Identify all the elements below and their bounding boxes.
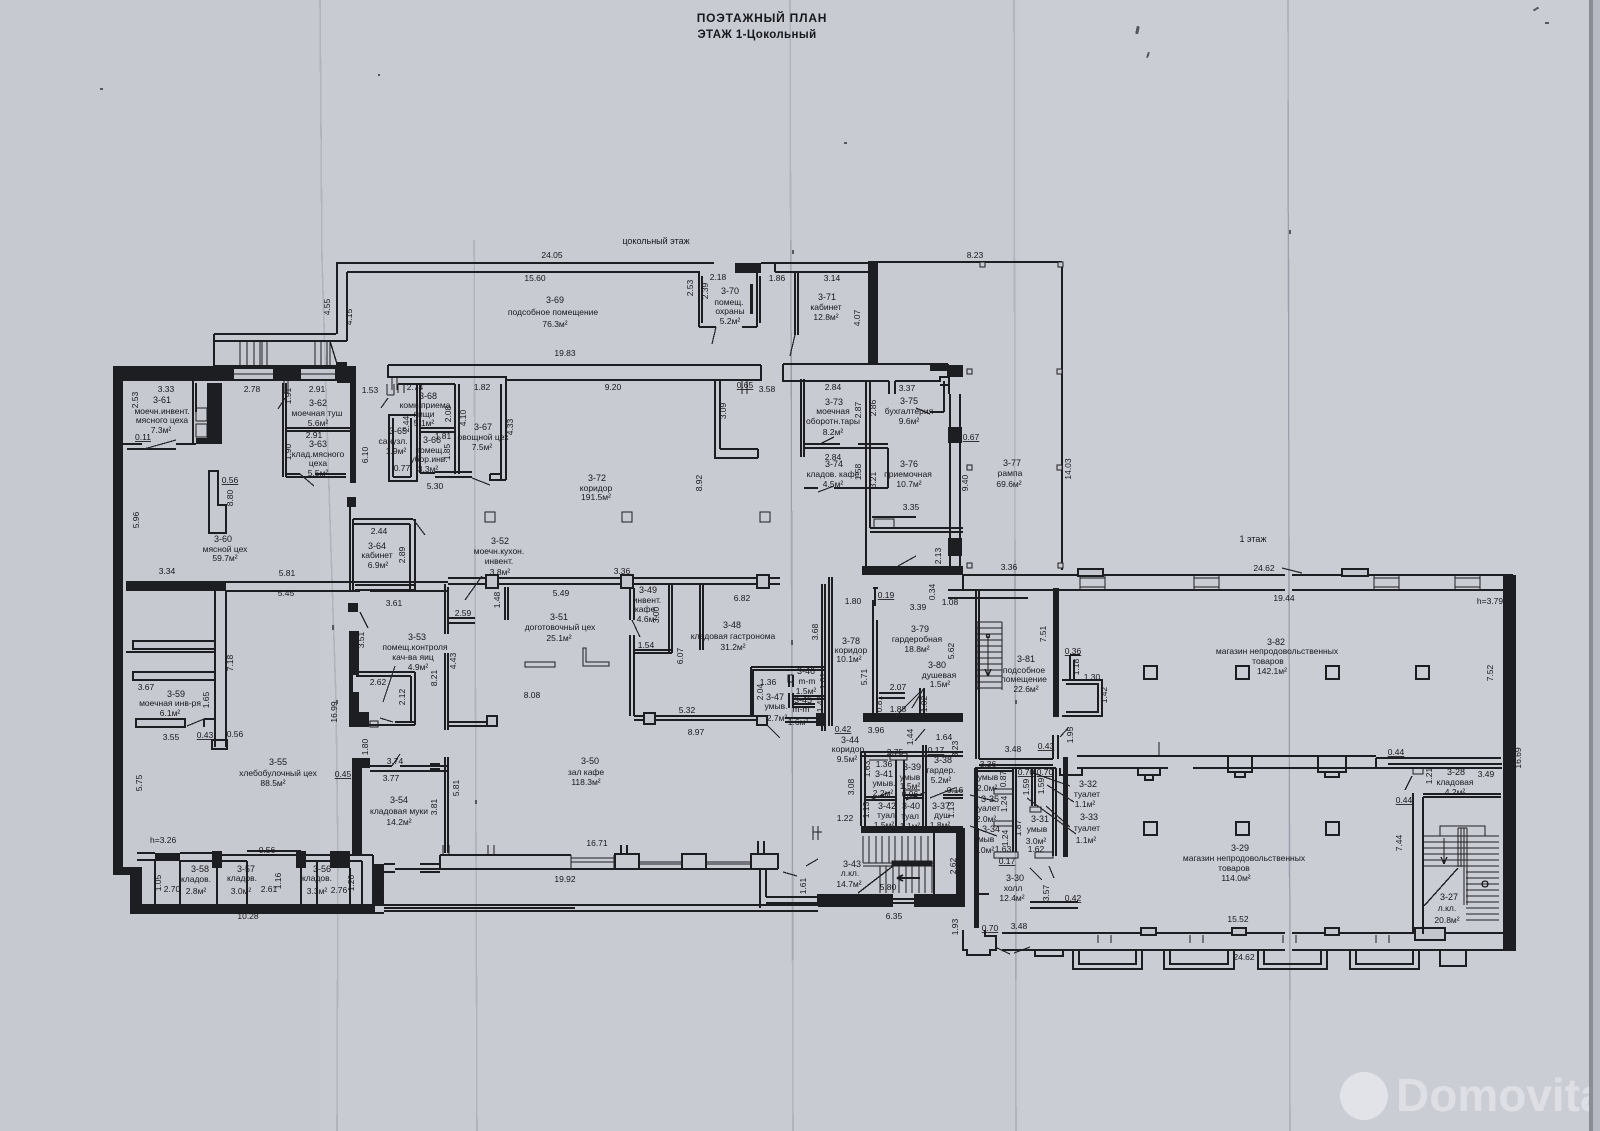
svg-text:1.53: 1.53 [362,385,379,395]
svg-text:л.кл.: л.кл. [841,868,859,878]
svg-text:6.9м²: 6.9м² [368,560,389,570]
svg-text:3.57: 3.57 [1041,884,1051,901]
svg-text:3.48: 3.48 [1011,921,1028,931]
east wall [1503,575,1516,950]
svg-text:118.3м²: 118.3м² [571,777,600,787]
svg-text:1.42: 1.42 [1099,686,1109,703]
svg-text:4.10: 4.10 [458,409,468,426]
svg-text:5.96: 5.96 [131,511,141,528]
svg-text:0.36: 0.36 [1065,646,1082,656]
svg-text:0.56: 0.56 [227,729,244,739]
svg-text:m-m: m-m [799,676,816,686]
small rooms 3-45..3-47 [751,667,824,715]
svg-text:1.57: 1.57 [373,883,383,900]
svg-text:0.19: 0.19 [878,590,895,600]
svg-text:1.1м²: 1.1м² [900,821,921,831]
svg-text:3-30: 3-30 [1006,873,1024,883]
svg-text:1.30: 1.30 [1084,672,1101,682]
svg-text:4.55: 4.55 [322,298,332,315]
svg-text:оборотн.тары: оборотн.тары [806,416,860,426]
svg-text:1.59: 1.59 [1036,777,1046,794]
3-54 west wall with step [352,758,370,855]
svg-text:гардер.: гардер. [927,765,956,775]
svg-text:2.7м²: 2.7м² [767,713,788,723]
svg-text:3.21: 3.21 [868,471,878,488]
ramp 3-77 top line [868,261,1062,263]
west wall stub mid [445,653,448,730]
svg-text:2.87: 2.87 [853,401,863,418]
svg-text:4.33: 4.33 [505,418,515,435]
svg-text:умыв.: умыв. [873,778,896,788]
svg-text:1.08: 1.08 [942,597,959,607]
svg-text:5.30: 5.30 [427,481,444,491]
svg-text:туалет: туалет [1074,823,1100,833]
svg-text:0.44: 0.44 [1388,747,1405,757]
svg-text:2.13: 2.13 [933,547,943,564]
cafe south wall band (hollow) [395,868,778,870]
cafe south windows [571,855,614,869]
svg-text:3-58: 3-58 [191,864,209,874]
svg-text:8.21: 8.21 [429,669,439,686]
svg-text:хлебобулочный цех: хлебобулочный цех [239,768,317,778]
svg-text:5.45: 5.45 [278,588,295,598]
svg-text:7.18: 7.18 [225,654,235,671]
svg-text:4.15: 4.15 [344,308,354,325]
door stubs below north band at 3-62 [284,381,288,393]
svg-text:3.08: 3.08 [846,778,856,795]
svg-text:8.2м²: 8.2м² [823,427,844,437]
svg-text:мясного цеха: мясного цеха [136,415,189,425]
svg-text:14.7м²: 14.7м² [836,879,861,889]
building east wall beside ramp [930,365,963,377]
svg-text:1.93: 1.93 [950,918,960,935]
svg-text:15.52: 15.52 [1227,914,1249,924]
3-79/3-80 area south wall [863,713,963,722]
svg-text:3.39: 3.39 [910,602,927,612]
svg-text:3-75: 3-75 [900,396,918,406]
svg-text:2.12: 2.12 [397,688,407,705]
room 3-71 top band [761,263,868,272]
svg-text:8.92: 8.92 [694,474,704,491]
svg-text:охраны: охраны [715,306,744,316]
svg-text:3.14: 3.14 [824,273,841,283]
dock ramp diagonal [330,341,337,364]
svg-text:1.6м²: 1.6м² [788,717,809,727]
2.59 shelf [448,618,475,623]
svg-text:1.62: 1.62 [1028,844,1045,854]
svg-text:1.65: 1.65 [201,691,211,708]
svg-text:3-46: 3-46 [797,666,815,676]
partition 3-68/3-66 [420,428,455,432]
3-81 east wall [1053,588,1059,717]
svg-text:1.80: 1.80 [360,738,370,755]
svg-text:бухгалтерия: бухгалтерия [885,406,934,416]
svg-text:умыв: умыв [978,772,999,782]
svg-text:3.68: 3.68 [810,623,820,640]
svg-text:умыв.: умыв. [765,701,788,711]
svg-text:ПОЭТАЖНЫЙ ПЛАН: ПОЭТАЖНЫЙ ПЛАН [697,10,828,25]
exterior porch walls [384,894,818,911]
connector wall to cafe south [384,864,440,872]
svg-text:24.62: 24.62 [1233,952,1255,962]
svg-text:рампа: рампа [998,468,1023,478]
svg-text:69.6м²: 69.6м² [996,479,1021,489]
svg-text:3.67: 3.67 [138,682,155,692]
room 3-59 vent bars [133,641,215,649]
svg-text:0.42: 0.42 [1065,893,1082,903]
svg-text:3.96: 3.96 [868,725,885,735]
svg-text:88.5м²: 88.5м² [260,778,285,788]
svg-text:1.5м²: 1.5м² [930,679,951,689]
3-28 south wall [1423,794,1501,797]
cafe east wall [822,584,825,731]
svg-text:7.52: 7.52 [1485,664,1495,681]
svg-text:191.5м²: 191.5м² [581,492,611,502]
svg-text:0.44: 0.44 [1396,795,1413,805]
svg-text:5.5м²: 5.5м² [308,468,329,478]
north wall windows [233,368,274,380]
hall 3-30 walls [975,868,989,894]
svg-text:3-55: 3-55 [269,757,287,767]
sanblock: room 3-68 west wall [398,384,455,473]
svg-text:4.9м²: 4.9м² [408,662,429,672]
svg-text:1.90: 1.90 [283,443,293,460]
bump above north wall [1078,569,1103,576]
svg-text:2.89: 2.89 [397,546,407,563]
ramp corner markers [967,262,1063,568]
3-76 niche [872,516,916,518]
svg-text:кладов.: кладов. [181,874,211,884]
svg-text:2.08: 2.08 [443,405,453,422]
svg-text:1.95: 1.95 [1065,726,1075,743]
svg-text:8.08: 8.08 [524,690,541,700]
svg-text:3.49: 3.49 [1478,769,1495,779]
svg-text:1.58: 1.58 [853,463,863,480]
svg-text:5.2м²: 5.2м² [931,775,952,785]
svg-text:3-61: 3-61 [153,395,171,405]
partition 3-73 / 3-74 [804,444,888,448]
svg-text:9.5м²: 9.5м² [837,754,858,764]
svg-text:1.02: 1.02 [919,695,929,712]
north wall band: solid outer segments [113,366,233,381]
svg-text:0.17: 0.17 [999,856,1016,866]
svg-text:114.0м²: 114.0м² [1221,873,1250,883]
svg-text:16.99: 16.99 [329,701,339,723]
svg-text:1.47: 1.47 [815,695,825,712]
svg-text:3-31: 3-31 [1031,814,1049,824]
svg-text:59.7м²: 59.7м² [212,553,237,563]
svg-text:1.24: 1.24 [999,795,1009,812]
svg-text:1.48: 1.48 [492,591,502,608]
svg-text:3-54: 3-54 [390,795,408,805]
svg-text:приемочная: приемочная [884,469,932,479]
svg-text:25.1м²: 25.1м² [546,633,571,643]
svg-text:1.22: 1.22 [837,813,854,823]
cafe south pillar bumps [615,845,639,869]
storeroom partitions [155,861,350,905]
svg-text:3-33: 3-33 [1080,812,1098,822]
door 3-75 [916,408,930,414]
svg-text:6.82: 6.82 [734,593,751,603]
room 4.9 box [352,672,415,725]
svg-text:товаров: товаров [1252,656,1284,666]
east thick wall of 3-63 [350,383,356,483]
svg-text:6.10: 6.10 [360,446,370,463]
svg-text:2.59: 2.59 [455,608,472,618]
svg-text:1.82: 1.82 [474,382,491,392]
outer west wall upper [113,367,123,871]
svg-text:1.1м²: 1.1м² [1075,799,1096,809]
room 3-69 inner top wall [347,271,700,273]
svg-text:5.32: 5.32 [679,705,696,715]
3-59 south shelf [136,719,185,727]
svg-text:гардеробная: гардеробная [892,634,943,644]
svg-text:3.51: 3.51 [356,631,366,648]
svg-text:9.20: 9.20 [605,382,622,392]
rooms 3-62/3-63 west wall [283,383,286,477]
room 3-61 south wall + door [113,444,196,449]
svg-text:3.37: 3.37 [899,383,916,393]
svg-text:5.6м²: 5.6м² [308,418,329,428]
svg-text:2.91: 2.91 [309,384,326,394]
svg-text:2.39: 2.39 [700,282,710,299]
svg-text:h=3.79: h=3.79 [1477,596,1504,606]
svg-text:3.36: 3.36 [1001,562,1018,572]
svg-text:5.49: 5.49 [553,588,570,598]
svg-text:0.17: 0.17 [928,745,945,755]
svg-text:3.3м²: 3.3м² [307,886,328,896]
svg-text:кладов.: кладов. [302,873,332,883]
sanblock: room 3-65 [389,415,417,481]
svg-text:0.67: 0.67 [963,432,980,442]
east service block: corridor 3-78 walls [829,577,832,726]
storeroom strip top wall [137,853,155,860]
svg-text:3.23: 3.23 [950,740,960,757]
svg-text:овощной цех: овощной цех [458,432,510,442]
svg-text:0.81: 0.81 [874,695,884,712]
svg-text:76.3м²: 76.3м² [542,319,567,329]
svg-text:2.8м²: 2.8м² [186,886,207,896]
svg-text:5.2м²: 5.2м² [720,316,741,326]
svg-text:холл: холл [1004,883,1023,893]
svg-text:1.44: 1.44 [905,728,915,745]
corridor north wall east part [783,364,948,394]
3-27 stair treads [1424,826,1499,920]
fold creases [320,0,1290,1131]
svg-text:3-70: 3-70 [721,286,739,296]
room 3-52 leader [465,576,482,600]
staircase 3-43 [813,826,934,893]
svg-text:1.24: 1.24 [1000,829,1010,846]
svg-text:1.13: 1.13 [861,801,871,818]
svg-text:3-72: 3-72 [588,473,606,483]
svg-text:1.05: 1.05 [153,874,163,891]
middle dividing wall [975,768,1056,771]
svg-text:2.0м²: 2.0м² [976,814,997,824]
svg-text:1 этаж: 1 этаж [1240,534,1267,544]
svg-text:1.81: 1.81 [435,431,452,441]
wall below 3-81 with door [979,735,1058,765]
svg-text:1.18: 1.18 [1071,658,1081,675]
svg-text:19.44: 19.44 [1273,593,1295,603]
svg-text:3.3м²: 3.3м² [418,464,439,474]
loading dock top [214,334,347,366]
svg-text:0.96: 0.96 [902,789,919,799]
svg-text:3.81: 3.81 [429,798,439,815]
svg-text:товаров: товаров [1218,863,1250,873]
pillar tabs on middle wall [1138,768,1160,780]
svg-text:7.51: 7.51 [1038,625,1048,642]
svg-text:3-63: 3-63 [309,439,327,449]
svg-text:2.2м²: 2.2м² [873,788,894,798]
3-81 stair [977,622,1002,690]
svg-text:7.44: 7.44 [1394,834,1404,851]
svg-text:1.88: 1.88 [890,704,907,714]
svg-text:1.59: 1.59 [1021,778,1031,795]
svg-text:10.7м²: 10.7м² [896,479,921,489]
svg-text:0.42: 0.42 [835,724,852,734]
svg-text:2.75: 2.75 [887,747,904,757]
svg-text:20.8м²: 20.8м² [1434,915,1459,925]
svg-text:3-34: 3-34 [982,824,1000,834]
svg-text:14.03: 14.03 [1063,458,1073,480]
svg-text:24.62: 24.62 [1253,563,1275,573]
svg-text:8.23: 8.23 [967,250,984,260]
watermark [1340,1069,1600,1121]
svg-text:3.58: 3.58 [759,384,776,394]
svg-text:3-76: 3-76 [900,459,918,469]
svg-text:3-48: 3-48 [723,620,741,630]
svg-text:3-62: 3-62 [309,398,327,408]
svg-text:подсобное помещение: подсобное помещение [508,307,599,317]
svg-text:кладовая: кладовая [1437,777,1474,787]
SW corner of shop block [974,828,979,928]
0.36 stub [1070,655,1080,680]
wall 5.81/5.45 double [226,582,448,591]
svg-text:туал: туал [901,811,919,821]
svg-text:1.86: 1.86 [769,273,786,283]
svg-text:22.6м²: 22.6м² [1013,684,1038,694]
svg-text:2.0м²: 2.0м² [974,845,995,855]
svg-text:m-m: m-m [793,704,810,714]
svg-text:142.1м²: 142.1м² [1257,666,1287,676]
svg-text:3.61: 3.61 [386,598,403,608]
3-51 worktables [525,662,555,667]
svg-text:10.28: 10.28 [237,911,259,921]
svg-text:5.1м²: 5.1м² [414,418,435,428]
svg-text:3-81: 3-81 [1017,654,1035,664]
south wall band [1002,933,1516,950]
svg-text:ЭТАЖ 1-Цокольный: ЭТАЖ 1-Цокольный [697,29,816,41]
svg-text:2.0м²: 2.0м² [977,783,998,793]
room 3-67 walls [455,380,506,480]
bottom wall segment to cafe [130,905,384,913]
svg-text:14.2м²: 14.2м² [386,817,411,827]
door diagonals 3-73/3-74 [820,437,834,444]
columns row 1 [1144,666,1157,679]
svg-text:3.36: 3.36 [980,759,997,769]
dark tick above wall [336,362,347,367]
3-48 south wall [634,716,758,720]
svg-text:3.55: 3.55 [163,732,180,742]
svg-text:0.70: 0.70 [982,923,999,933]
svg-text:2.84: 2.84 [825,382,842,392]
partition 3-51 / 3-48 [630,588,634,716]
svg-text:7.5м²: 7.5м² [472,442,493,452]
svg-text:3-69: 3-69 [546,295,564,305]
svg-text:19.83: 19.83 [554,348,576,358]
north wall band [963,575,1513,590]
3-79 west stub [873,588,878,606]
corridor north wall hollow band [388,365,761,380]
svg-text:8.97: 8.97 [688,727,705,737]
svg-text:2.78: 2.78 [244,384,261,394]
svg-text:0.45: 0.45 [335,769,352,779]
svg-text:5.81: 5.81 [451,779,461,796]
svg-text:1.01: 1.01 [818,672,828,689]
svg-text:1.13: 1.13 [946,801,956,818]
svg-text:2.86: 2.86 [868,399,878,416]
svg-text:кабинет: кабинет [810,302,841,312]
3-63 south wall + door [286,474,346,477]
svg-text:0.56: 0.56 [259,845,276,855]
svg-text:16.71: 16.71 [586,838,608,848]
svg-text:0.65: 0.65 [737,380,754,390]
svg-text:кабинет: кабинет [361,550,392,560]
wall 3-75 east jog [930,381,944,412]
svg-text:4.5м²: 4.5м² [823,479,844,489]
svg-text:1.85: 1.85 [442,443,452,460]
svg-text:1.54: 1.54 [638,640,655,650]
svg-text:магазин непродовольственных: магазин непродовольственных [1183,853,1306,863]
wall 3-73 block west [801,379,804,457]
svg-text:1.8м²: 1.8м² [930,820,951,830]
node squares on cafe north wall [486,575,498,588]
svg-text:3-49: 3-49 [639,585,657,595]
svg-text:3.00: 3.00 [651,606,661,623]
svg-text:3-74: 3-74 [825,459,843,469]
title [697,10,828,41]
wall 0.44 segment [1388,764,1502,768]
wall 7.18 vertical [212,591,227,749]
svg-text:4.2м²: 4.2м² [1445,787,1466,797]
svg-text:1.64: 1.64 [936,732,953,742]
room 3-61 niche wall [196,383,222,444]
svg-text:инвент.: инвент. [485,556,514,566]
svg-text:6.35: 6.35 [886,911,903,921]
dock stair treads [240,341,330,366]
svg-text:1.61: 1.61 [798,877,808,894]
svg-text:24.05: 24.05 [541,250,563,260]
svg-text:0.70: 0.70 [1018,767,1035,777]
3-27 west wall [1413,793,1423,934]
svg-text:1.63: 1.63 [862,760,872,777]
svg-text:6.1м²: 6.1м² [160,708,181,718]
svg-text:10.1м²: 10.1м² [836,654,861,664]
south wall below stairs [818,894,893,907]
svg-text:моечная инв-ря: моечная инв-ря [139,698,201,708]
svg-text:5.62: 5.62 [946,642,956,659]
svg-text:2.07: 2.07 [890,682,907,692]
corridor 3-72 column squares [485,512,495,522]
svg-text:3-51: 3-51 [550,612,568,622]
room 3-69 outer top wall [336,262,714,264]
room 3-61 east wall [193,381,196,444]
svg-text:2.04: 2.04 [755,683,765,700]
svg-text:0.43: 0.43 [197,730,214,740]
svg-text:цокольный этаж: цокольный этаж [622,236,689,246]
svg-text:3-80: 3-80 [928,660,946,670]
